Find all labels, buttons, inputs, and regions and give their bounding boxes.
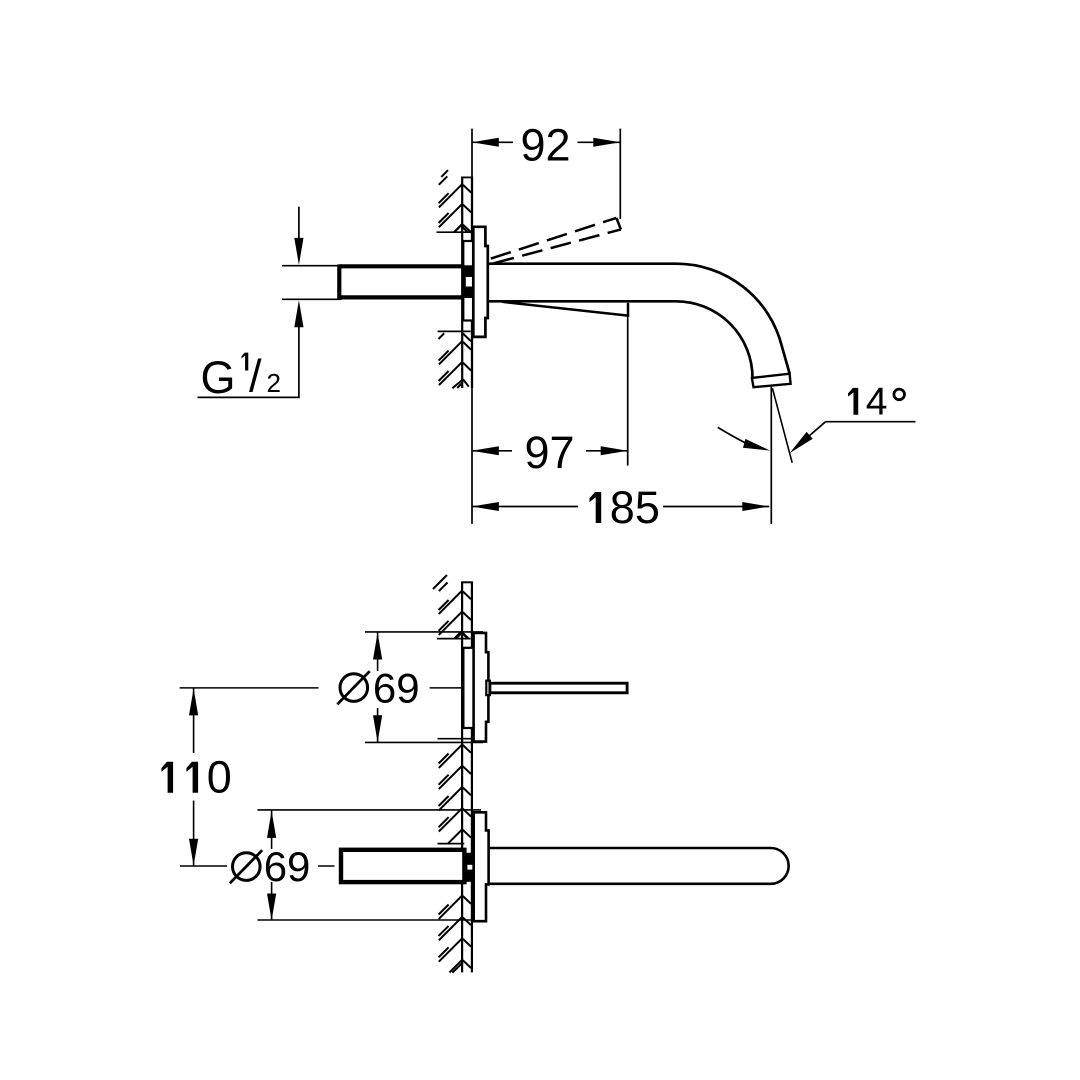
wall hatch block C (above handle plate) xyxy=(433,575,471,639)
dimension 110 xyxy=(161,688,231,865)
spout centerline (bottom view) xyxy=(180,865,335,867)
hatch block D bottom boundary line xyxy=(438,843,465,845)
escutcheon plate (top view) xyxy=(473,227,488,337)
hatch block D top boundary line xyxy=(438,738,472,740)
wall hatch block E (below spout plate) xyxy=(439,896,471,973)
dimension diameter 69 (spout) xyxy=(230,810,311,920)
handle lever in open position (dashed) xyxy=(491,218,621,263)
hatch block C bottom boundary line xyxy=(437,638,471,640)
mounting insert behind handle plate (bottom view) xyxy=(463,648,473,728)
spout inner outline (top view) xyxy=(488,301,753,378)
svg-text:69: 69 xyxy=(264,843,311,890)
dimension 185 xyxy=(472,482,770,533)
svg-text:/: / xyxy=(249,351,262,402)
handle escutcheon plate (bottom view) xyxy=(474,633,489,742)
svg-text:69: 69 xyxy=(373,664,420,711)
svg-text:G: G xyxy=(201,352,236,403)
hatch block A bottom boundary line xyxy=(437,231,472,233)
wall top cap (top view) xyxy=(461,176,473,178)
spout outer outline (top view) xyxy=(488,264,790,374)
aerator tip piece xyxy=(752,374,791,388)
lever wedge seen below spout (top view) xyxy=(502,302,628,317)
14deg leader line with arrow xyxy=(790,422,916,454)
dimension 92 xyxy=(472,119,621,170)
extension lines of diameter 69 (spout) xyxy=(258,810,482,920)
wall finished-surface line (bottom view) xyxy=(471,582,473,972)
G1/2 dimension arrow (upper) xyxy=(294,207,303,265)
lever stub at plate (bottom view) xyxy=(486,681,490,695)
svg-text:2: 2 xyxy=(267,368,281,398)
wall hatch block D (between plates) xyxy=(439,745,471,844)
built-in mounting insert behind escutcheon (top view) xyxy=(463,241,473,321)
connection nipple blocks (top view) xyxy=(465,266,473,297)
svg-text:4: 4 xyxy=(866,381,888,424)
lever bar (bottom view) xyxy=(490,683,627,693)
handle centerline (bottom view) xyxy=(180,687,462,689)
wall top cap (bottom view) xyxy=(461,581,473,583)
connection nipple blocks (bottom view) xyxy=(466,854,473,881)
wall rough line (top view) xyxy=(461,177,463,388)
svg-text:0: 0 xyxy=(207,752,232,803)
svg-text:97: 97 xyxy=(524,427,574,478)
14deg rotation arc with arrow xyxy=(718,427,770,450)
supply pipe (bottom view) xyxy=(341,850,464,882)
wall hatch block A (upper left of wall, top view) xyxy=(439,170,472,232)
dimension diameter 69 (handle) xyxy=(337,633,419,743)
svg-text:92: 92 xyxy=(520,119,570,170)
hatch block B top boundary line xyxy=(438,330,471,332)
spout tube with rounded end (bottom view) xyxy=(489,848,789,884)
extension line for 97 (lever tip) xyxy=(627,317,629,466)
extension line for 185 / vertical reference of 14deg xyxy=(770,386,772,524)
G1/2 dimension arrow (lower) + leader to label xyxy=(198,300,304,397)
extension line for 92 (handle tip) xyxy=(619,129,621,219)
label G 1/2 xyxy=(201,351,281,404)
wall finished-surface / extension plane line (top view) xyxy=(471,129,473,524)
dimension 97 xyxy=(472,427,628,478)
14deg slanted spout axis line xyxy=(772,388,792,463)
label 14deg xyxy=(848,381,904,424)
extension lines of diameter 69 (handle) xyxy=(365,632,483,743)
wall rough line (bottom view) xyxy=(461,582,463,972)
wall hatch block B (lower left of wall, top view) xyxy=(439,333,472,388)
spout escutcheon plate (bottom view) xyxy=(474,812,489,921)
supply pipe thin lines G1/2 (top view) xyxy=(282,266,342,300)
svg-text:85: 85 xyxy=(610,482,660,533)
handle lever bar in closed position (top view) xyxy=(339,264,462,299)
